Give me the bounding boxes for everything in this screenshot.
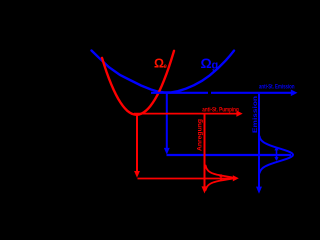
- red linewidth (FWHM) double arrow: [219, 174, 223, 181]
- blue vertical relaxation arrow at x=167: [166, 93, 168, 149]
- ground-state potential curve Omega_g (blue parabola): [92, 51, 235, 93]
- svg-text:anti-St. Emission: anti-St. Emission: [259, 84, 295, 91]
- upper blue level line (left segment): [151, 92, 208, 94]
- label Omega_e: [154, 57, 168, 71]
- red vertical transition arrow at x=137: [136, 115, 138, 172]
- red pump level line with arrow: [134, 113, 237, 115]
- arrowhead of red transition arrow: [134, 171, 140, 178]
- svg-text:Ω: Ω: [201, 55, 212, 71]
- arrowhead of blue axis: [256, 187, 262, 194]
- arrowhead of lower red line: [233, 175, 239, 181]
- excited-state potential curve Omega_e (red parabola): [102, 51, 174, 115]
- svg-text:g: g: [212, 60, 219, 72]
- svg-text:Anregung: Anregung: [196, 119, 203, 151]
- lower blue level line: [167, 154, 292, 156]
- svg-text:anti-St. Pumping: anti-St. Pumping: [202, 107, 239, 114]
- lower red level line with arrow: [138, 178, 234, 180]
- arrowhead of blue relaxation arrow: [164, 148, 170, 155]
- label Omega_g: [201, 55, 219, 72]
- red pump line shape (lorentzian peak): [206, 166, 233, 190]
- arrowhead of red axis: [202, 186, 208, 193]
- red spectrum frequency axis: [204, 114, 206, 187]
- blue linewidth (FWHM) double arrow: [274, 147, 278, 161]
- arrowhead of red pump line: [236, 111, 242, 117]
- blue emission line shape (gaussian peak): [260, 136, 294, 173]
- svg-text:Emission: Emission: [252, 96, 259, 133]
- blue spectrum frequency axis: [258, 93, 260, 187]
- arrowhead of upper blue line: [291, 90, 298, 97]
- upper blue level line (right segment, arrow to emission axis): [211, 92, 291, 94]
